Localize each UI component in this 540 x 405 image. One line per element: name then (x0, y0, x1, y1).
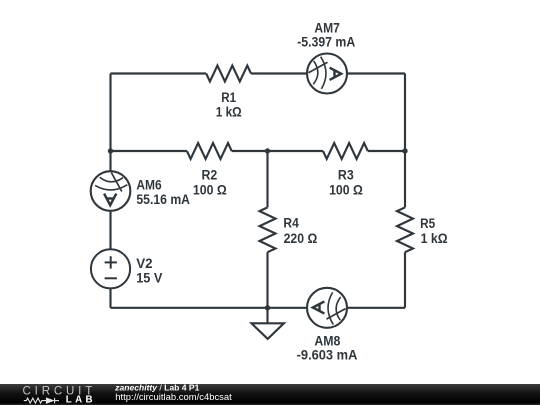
resistor R1 (206, 66, 251, 82)
svg-text:-9.603 mA: -9.603 mA (297, 348, 358, 363)
svg-text:R2: R2 (202, 167, 218, 182)
resistor R2 (187, 143, 232, 159)
svg-text:http://circuitlab.com/c4bcsat: http://circuitlab.com/c4bcsat (115, 392, 232, 403)
svg-text:AM7: AM7 (314, 20, 339, 35)
svg-text:1 kΩ: 1 kΩ (216, 105, 242, 120)
wire V2 to bottom corner (109, 288, 111, 307)
logo resistor-diode glyph (24, 398, 59, 403)
svg-text:zanechitty / Lab 4 P1: zanechitty / Lab 4 P1 (114, 383, 200, 393)
wire right vertical upper (404, 74, 406, 208)
wire R1 to AM7 (251, 72, 307, 74)
node right-middle (402, 148, 407, 153)
wire middle-left horizontal (111, 150, 187, 152)
resistor R5 (397, 207, 413, 252)
wire R3 to right node (368, 150, 405, 152)
wire R4 top stub (266, 151, 268, 207)
ground (252, 308, 284, 339)
svg-text:V2: V2 (136, 256, 152, 271)
wire R2 to center node (232, 150, 323, 152)
wire ground node to AM8 (268, 307, 308, 309)
wire left vertical upper (109, 74, 111, 172)
wire bottom-left horizontal (111, 307, 268, 309)
svg-text:LAB: LAB (66, 395, 96, 405)
voltage source V2 (91, 249, 130, 288)
node junction dots (108, 148, 408, 310)
ammeter AM8 (307, 288, 347, 328)
node bottom-ground (265, 305, 270, 310)
svg-text:R4: R4 (283, 216, 299, 231)
svg-text:100 Ω: 100 Ω (193, 183, 227, 198)
svg-text:-5.397 mA: -5.397 mA (297, 35, 355, 50)
svg-text:220 Ω: 220 Ω (284, 231, 318, 246)
resistor R3 (323, 143, 368, 159)
wire top-left horizontal (111, 72, 207, 74)
svg-text:R5: R5 (420, 216, 435, 231)
wire AM7 to right corner (347, 72, 405, 74)
svg-text:55.16 mA: 55.16 mA (136, 192, 190, 207)
svg-text:AM8: AM8 (314, 334, 340, 349)
node center (265, 148, 270, 153)
wire right vertical lower (404, 252, 406, 308)
wire AM8 to bottom-right corner (347, 307, 405, 309)
svg-text:AM6: AM6 (136, 177, 161, 192)
ammeter AM7 (307, 54, 347, 94)
node left-middle (108, 148, 113, 153)
svg-text:R3: R3 (338, 167, 354, 182)
ammeter AM6 (91, 171, 131, 211)
wire R4 bottom stub (266, 252, 268, 308)
svg-text:15 V: 15 V (136, 270, 162, 285)
svg-text:R1: R1 (221, 90, 236, 105)
resistor R4 (260, 207, 276, 252)
svg-text:1 kΩ: 1 kΩ (421, 231, 448, 246)
svg-text:100 Ω: 100 Ω (329, 183, 363, 198)
wire AM6 to V2 (109, 211, 111, 249)
